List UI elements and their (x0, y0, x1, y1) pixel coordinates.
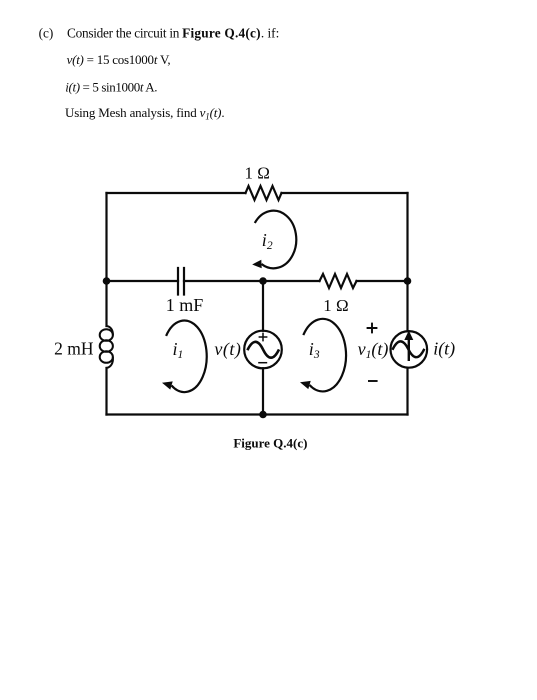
capacitor C1 1mF plates (178, 268, 184, 295)
svg-text:i1: i1 (173, 339, 184, 361)
mesh arrow i3 arc (303, 319, 346, 392)
inductor L1 2mH coil (100, 326, 113, 368)
voltage source plus sign (259, 333, 268, 342)
mesh arrow i2 head (252, 260, 262, 269)
svg-text:i3: i3 (309, 339, 320, 361)
svg-text:v(t): v(t) (214, 339, 241, 360)
label plus polarity (367, 323, 378, 334)
svg-text:1 Ω: 1 Ω (323, 296, 348, 315)
svg-text:(c): (c) (39, 26, 54, 41)
voltage source minus sign (258, 362, 267, 364)
mesh arrow i1 head (162, 381, 173, 389)
svg-text:1 mF: 1 mF (166, 295, 204, 315)
wire bottom (107, 413, 408, 415)
wire middle horizontal (107, 280, 408, 282)
voltage source sine wave (247, 342, 279, 358)
node dot middle-right (404, 277, 412, 285)
svg-text:i(t): i(t) (433, 339, 455, 360)
svg-text:v1(t): v1(t) (358, 339, 389, 361)
current source arrow line (408, 339, 410, 361)
svg-text:2 mH: 2 mH (54, 338, 94, 358)
mesh arrow i1 arc (166, 321, 207, 393)
svg-text:Consider the circuit in Figure: Consider the circuit in Figure Q.4(c). i… (67, 26, 279, 41)
node dot middle-center (259, 277, 267, 285)
node dot bottom-center (259, 411, 267, 419)
svg-text:Figure Q.4(c): Figure Q.4(c) (233, 435, 307, 450)
svg-text:v(t) = 15 cos1000t V,: v(t) = 15 cos1000t V, (67, 52, 171, 67)
svg-text:Using Mesh analysis, find v1(t: Using Mesh analysis, find v1(t). (65, 105, 224, 122)
mesh arrow i2 arc (255, 211, 296, 269)
wire center vertical (262, 281, 264, 415)
current source I1 circle (391, 331, 428, 368)
current source sine wave (392, 341, 424, 357)
node dot middle-left (103, 277, 111, 285)
resistor R top 1 ohm zigzag (246, 186, 282, 200)
svg-text:i2: i2 (262, 230, 273, 252)
svg-text:1 Ω: 1 Ω (245, 164, 270, 183)
wire top (107, 192, 408, 194)
svg-text:i(t) = 5 sin1000t A.: i(t) = 5 sin1000t A. (65, 80, 157, 95)
wire right (406, 193, 408, 415)
wire left (105, 193, 107, 415)
label minus polarity (368, 380, 378, 382)
voltage source V1 circle (244, 331, 282, 369)
mesh arrow i3 head (300, 381, 311, 389)
current source arrowhead (404, 331, 413, 341)
resistor R middle 1 ohm zigzag (320, 274, 357, 288)
